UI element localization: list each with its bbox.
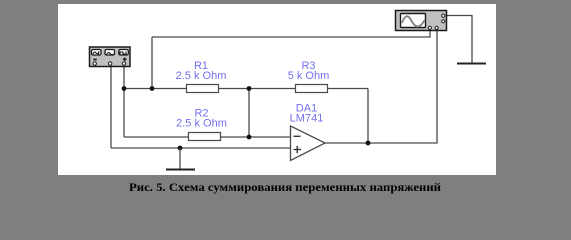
ground (right, oscilloscope) bbox=[457, 63, 486, 65]
oscilloscope instrument bbox=[396, 11, 447, 31]
wire: top rail to oscilloscope channel A bbox=[152, 29, 430, 37]
op-amp U1 DA1 LM741 bbox=[291, 126, 326, 161]
node: output junction bbox=[366, 141, 371, 146]
wire: summing node vertical (R1 row to R2 row) bbox=[248, 89, 250, 138]
wire: oscilloscope ground terminal to right ground bbox=[446, 16, 472, 63]
wire: generator COM terminal down to lower rail bbox=[110, 65, 112, 148]
wire: R3 feedback drop to output node bbox=[367, 89, 369, 144]
function generator instrument bbox=[90, 47, 131, 67]
resistor R3 bbox=[296, 85, 328, 93]
ground (left, lower rail) bbox=[166, 148, 195, 170]
resistor R2 bbox=[189, 133, 221, 141]
node: summing junction on R1 row bbox=[247, 86, 252, 91]
wire: sense tap up from R1 row bbox=[151, 37, 153, 89]
svg-text:2.5 k Ohm: 2.5 k Ohm bbox=[176, 118, 227, 130]
node: ground tap on lower rail bbox=[178, 146, 183, 151]
wire: op-amp output to oscilloscope channel B bbox=[325, 29, 437, 143]
svg-text:2.5 k Ohm: 2.5 k Ohm bbox=[176, 70, 227, 82]
svg-text:Рис. 5. Схема суммирования пе: Рис. 5. Схема суммирования переменных на… bbox=[129, 180, 441, 194]
resistor R1 bbox=[187, 85, 219, 93]
wire: R1 input row (node A to R3/feedback corner) bbox=[124, 88, 368, 90]
node A: generator input to R1 row bbox=[122, 86, 127, 91]
wire: R2 input row to op-amp inverting input bbox=[124, 136, 291, 138]
wire: generator + terminal down to node A (R1/R2 input) bbox=[123, 65, 125, 137]
svg-text:5 k Ohm: 5 k Ohm bbox=[288, 70, 330, 82]
wire: lower rail to op-amp non-inverting input bbox=[111, 147, 291, 149]
node: summing junction on R2 row bbox=[247, 135, 252, 140]
schematic white area bbox=[58, 4, 496, 175]
svg-text:LM741: LM741 bbox=[290, 113, 324, 125]
node: sense tap on R1 row bbox=[150, 86, 155, 91]
